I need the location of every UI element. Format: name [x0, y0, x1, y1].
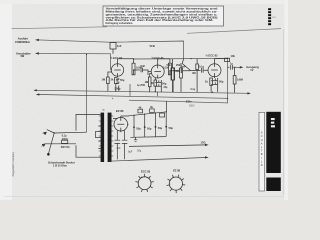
svg-text:½ ECC 83: ½ ECC 83	[110, 56, 123, 60]
svg-text:S: S	[261, 131, 263, 135]
svg-text:4M: 4M	[192, 71, 196, 75]
svg-text:25k: 25k	[176, 63, 181, 67]
svg-text:C: C	[261, 134, 263, 138]
svg-text:1V: 1V	[250, 68, 253, 72]
svg-text:50µ: 50µ	[158, 126, 163, 130]
svg-text:8: 8	[151, 183, 152, 185]
svg-text:2: 2	[170, 184, 171, 186]
svg-text:½ ECC 83: ½ ECC 83	[152, 56, 165, 60]
svg-text:50k: 50k	[167, 63, 172, 67]
svg-text:10k: 10k	[231, 54, 236, 58]
svg-text:Eintragung vorbehalten.: Eintragung vorbehalten.	[106, 22, 134, 25]
svg-text:1M: 1M	[102, 78, 106, 82]
svg-text:D: D	[261, 163, 263, 167]
svg-text:50µ: 50µ	[169, 126, 174, 130]
svg-text:400Ω: 400Ω	[62, 138, 68, 141]
svg-text:Hergestellt in Germany: Hergestellt in Germany	[12, 151, 15, 176]
svg-text:0,6M: 0,6M	[237, 78, 243, 82]
svg-text:7: 7	[180, 177, 181, 179]
svg-text:1: 1	[141, 177, 142, 179]
svg-text:50µ: 50µ	[162, 82, 167, 86]
svg-text:Tr: Tr	[102, 109, 104, 112]
svg-text:8µF: 8µF	[128, 151, 133, 153]
svg-text:5nF: 5nF	[141, 64, 146, 68]
svg-text:B: B	[261, 152, 263, 156]
svg-text:17Ω: 17Ω	[201, 141, 206, 145]
svg-text:EZ 80: EZ 80	[173, 169, 180, 173]
svg-text:1µ: 1µ	[230, 61, 233, 65]
svg-text:2: 2	[138, 183, 139, 185]
svg-text:+: +	[112, 97, 114, 101]
svg-text:H: H	[261, 138, 263, 142]
svg-text:1M: 1M	[145, 80, 149, 84]
svg-text:9: 9	[149, 177, 150, 179]
svg-text:1 Ø 10 Ohm: 1 Ø 10 Ohm	[53, 165, 68, 168]
svg-text:50µ: 50µ	[120, 78, 125, 82]
svg-text:25µ: 25µ	[164, 87, 169, 89]
svg-text:1: 1	[172, 177, 173, 179]
svg-text:220v: 220v	[186, 99, 192, 103]
svg-text:5: 5	[146, 190, 147, 192]
svg-text:½ ECC 83: ½ ECC 83	[206, 54, 219, 58]
svg-text:50µ: 50µ	[136, 126, 141, 130]
svg-text:50µ: 50µ	[147, 126, 152, 130]
svg-text:1W: 1W	[20, 54, 24, 58]
svg-text:500p: 500p	[115, 86, 121, 90]
svg-text:0,1µ: 0,1µ	[199, 65, 205, 69]
svg-text:50µ: 50µ	[137, 151, 142, 153]
svg-text:0,1µ: 0,1µ	[191, 89, 196, 91]
svg-text:A: A	[261, 141, 263, 145]
svg-text:ECC 83: ECC 83	[141, 169, 151, 173]
svg-text:200V: 200V	[189, 104, 195, 107]
svg-text:VFB: VFB	[150, 44, 155, 48]
svg-text:50µ: 50µ	[219, 80, 224, 84]
svg-text:EZ 80: EZ 80	[116, 109, 124, 113]
svg-text:6: 6	[182, 184, 183, 186]
svg-text:MPi: MPi	[272, 17, 276, 19]
svg-text:1nF: 1nF	[117, 44, 122, 48]
svg-text:1µ 25W: 1µ 25W	[137, 85, 146, 87]
svg-text:SW 15A: SW 15A	[61, 146, 70, 149]
svg-text:CSW/300Hz: CSW/300Hz	[15, 40, 30, 44]
